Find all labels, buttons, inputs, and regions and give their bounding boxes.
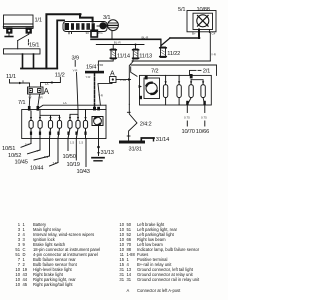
wire loop inner vertical bbox=[57, 20, 64, 68]
svg-text:10/43: 10/43 bbox=[77, 169, 90, 175]
svg-text:1.5: 1.5 bbox=[79, 141, 84, 145]
wire battery positive to 15/1 rail bbox=[18, 33, 29, 49]
battery terminal negative bbox=[7, 28, 12, 33]
svg-text:Ground connector rail in relay: Ground connector rail in relay unit bbox=[137, 277, 200, 282]
resistor top leads + arrows bbox=[30, 110, 87, 121]
svg-text:0.75: 0.75 bbox=[184, 116, 190, 120]
wire 10/44 stub bbox=[50, 139, 59, 167]
wire 10/66 drop bbox=[204, 105, 206, 126]
wire fuse 11/14 to 15/4 rail bbox=[98, 59, 113, 71]
connector A at left A-post bbox=[28, 87, 44, 94]
bulb failure sensor front 7/2 box bbox=[140, 75, 212, 105]
ground rail 31/31 bbox=[119, 141, 145, 144]
svg-text:LA: LA bbox=[45, 82, 49, 86]
svg-text:5.9: 5.9 bbox=[44, 155, 49, 159]
svg-text:15/4: 15/4 bbox=[86, 64, 96, 70]
svg-text:W: W bbox=[29, 96, 32, 100]
wire 10/52 stub bbox=[28, 139, 41, 154]
wire 10/43 stub bbox=[85, 139, 87, 167]
wire horizontal feed bottom bbox=[21, 68, 57, 70]
wire 7/1 upper bus bbox=[38, 105, 106, 109]
ground 31/13 bbox=[92, 158, 104, 161]
svg-text:Connector at left A-post: Connector at left A-post bbox=[137, 288, 181, 293]
svg-text:Right parking/tail light: Right parking/tail light bbox=[33, 282, 73, 287]
legend left column bbox=[15, 222, 100, 287]
battery 1/1 bbox=[4, 15, 34, 29]
indicator lamp unit 10/88 bbox=[187, 11, 216, 32]
svg-text:Y-R: Y-R bbox=[86, 75, 92, 79]
wire A pin1 down to 7/1 bbox=[28, 94, 31, 107]
connector box below ignition lock bbox=[91, 30, 97, 37]
wire from fuse 11/1 bbox=[10, 80, 30, 88]
main light relay 3/1 bbox=[108, 20, 119, 31]
wire feed step to ignition lock bbox=[80, 14, 93, 21]
svg-text:45: 45 bbox=[23, 282, 28, 287]
wire 10/51 stub bbox=[21, 139, 31, 148]
svg-text:15/1: 15/1 bbox=[29, 42, 39, 48]
wire 15/4 dashed drop to 7/1 bbox=[93, 73, 96, 110]
wire A corner drop to fuse 11/22 bbox=[159, 39, 162, 46]
svg-text:3/9: 3/9 bbox=[72, 55, 79, 61]
wire jog diagonal bbox=[161, 38, 170, 46]
resistor bottom leads 7/1 bbox=[30, 128, 87, 138]
svg-text:1.5R: 1.5R bbox=[97, 63, 104, 67]
rail 15/4 bbox=[85, 71, 104, 74]
svg-text:7/2: 7/2 bbox=[151, 68, 158, 74]
7/2 assembly bbox=[119, 59, 217, 144]
svg-text:1.5R: 1.5R bbox=[120, 78, 127, 82]
wire 10/70 drop bbox=[186, 105, 188, 126]
legend right column bbox=[119, 222, 200, 293]
svg-text:11/22: 11/22 bbox=[167, 51, 180, 57]
svg-text:31/14: 31/14 bbox=[156, 137, 169, 143]
svg-text:10/52: 10/52 bbox=[8, 153, 21, 159]
svg-text:A: A bbox=[127, 288, 130, 293]
svg-text:10/88: 10/88 bbox=[197, 7, 210, 13]
svg-text:11/14: 11/14 bbox=[117, 53, 130, 59]
resistor top leads 7/2 bbox=[165, 74, 205, 85]
pin 10/88 right bbox=[208, 30, 210, 33]
wire A pin2 down to 7/1 bbox=[38, 94, 40, 107]
svg-text:Y-R: Y-R bbox=[211, 53, 217, 57]
svg-text:11/2: 11/2 bbox=[55, 73, 65, 79]
svg-text:11/13: 11/13 bbox=[139, 53, 152, 59]
wire relay to wire A bbox=[111, 31, 113, 40]
battery terminal positive bbox=[26, 28, 31, 33]
svg-text:A: A bbox=[44, 87, 50, 96]
wire fuse 11/13 bottom run to right bbox=[132, 60, 210, 62]
fuse 11/13 bbox=[133, 44, 139, 60]
node pin 7/1 second bbox=[37, 106, 40, 111]
resistor bottom leads 7/2 bbox=[166, 98, 206, 105]
wire battery negative to post bbox=[5, 33, 13, 36]
svg-text:A: A bbox=[110, 71, 115, 78]
pin 10/88 left bbox=[198, 30, 200, 39]
svg-text:C4: C4 bbox=[212, 31, 216, 35]
svg-text:PG: PG bbox=[98, 31, 103, 35]
svg-text:31: 31 bbox=[127, 277, 132, 282]
svg-text:Y-R: Y-R bbox=[98, 94, 104, 98]
svg-text:2/1: 2/1 bbox=[203, 69, 210, 75]
ignition lock pins bbox=[69, 32, 72, 34]
svg-text:31/31: 31/31 bbox=[129, 147, 142, 153]
svg-text:0.75: 0.75 bbox=[201, 116, 207, 120]
svg-text:10/50: 10/50 bbox=[63, 154, 76, 160]
ground connector 31/14 step bbox=[141, 138, 154, 141]
svg-text:BL-R: BL-R bbox=[114, 41, 122, 45]
wire A (lock output to right) bbox=[91, 38, 160, 40]
wire from fuse 11/2 bbox=[41, 78, 61, 88]
svg-text:2/4:2: 2/4:2 bbox=[140, 122, 152, 128]
wire connector A right to 7/1 bbox=[98, 83, 112, 85]
wire coil 7/1 to ground bbox=[97, 126, 100, 156]
wire B (feed to fuses) bbox=[96, 44, 144, 46]
labels top bbox=[29, 7, 217, 79]
svg-text:10/70: 10/70 bbox=[182, 129, 195, 135]
wire indicator lamp feed (Y-R) vertical bbox=[209, 33, 211, 61]
fuse 11/14 bbox=[110, 45, 116, 60]
svg-text:BL-R: BL-R bbox=[142, 35, 150, 39]
svg-text:B+: B+ bbox=[192, 31, 196, 35]
svg-text:31: 31 bbox=[119, 277, 124, 282]
svg-text:1.5: 1.5 bbox=[70, 141, 75, 145]
bulb failure sensor rear 7/1 box bbox=[22, 110, 106, 139]
svg-text:7/1: 7/1 bbox=[18, 100, 25, 106]
wire 3/9 brake switch drop bbox=[75, 61, 78, 110]
svg-text:10/19: 10/19 bbox=[67, 162, 80, 168]
wire 10/88 to jog bbox=[170, 37, 200, 39]
resistors in 7/1 bbox=[29, 107, 103, 139]
positive rail 15/1 bbox=[4, 49, 41, 54]
lamp symbol in 10/88 bbox=[197, 15, 209, 27]
svg-text:10/45: 10/45 bbox=[15, 160, 28, 166]
svg-text:5/1: 5/1 bbox=[178, 7, 185, 13]
svg-text:10/44: 10/44 bbox=[30, 166, 43, 172]
wire 7/1 internal bus 1 bbox=[40, 110, 60, 115]
wire 2/4:2 zigzag to ground bbox=[127, 104, 137, 140]
wire 7/1 internal bus 2 bbox=[70, 110, 78, 115]
labels middle bbox=[2, 55, 210, 175]
svg-text:3/1: 3/1 bbox=[103, 15, 110, 21]
wire 10/50 stub bbox=[67, 139, 69, 151]
resistors in 7/2 bbox=[163, 85, 205, 98]
wire fuse 11/13 to 2/4 drop bbox=[129, 59, 133, 104]
svg-text:1/1: 1/1 bbox=[35, 18, 42, 24]
svg-text:31/13: 31/13 bbox=[101, 150, 114, 156]
svg-text:30: 30 bbox=[86, 31, 90, 35]
ignition lock 3/3 bbox=[63, 22, 107, 32]
bulb failure sensor front 7/2 outer band bbox=[131, 65, 217, 76]
svg-text:LA: LA bbox=[63, 101, 67, 105]
svg-text:10/51: 10/51 bbox=[2, 146, 15, 152]
wire 10/45 stub bbox=[34, 139, 50, 161]
node pin 7/1 left bbox=[28, 106, 31, 111]
wire 15/1 rail drops bbox=[23, 54, 34, 68]
svg-text:7.5: 7.5 bbox=[53, 161, 58, 165]
sensor coil 7/1 bbox=[92, 107, 103, 126]
connector A right square bbox=[110, 77, 116, 83]
svg-text:10/66: 10/66 bbox=[196, 129, 209, 135]
svg-text:10: 10 bbox=[15, 282, 20, 287]
wire 10/19 stub bbox=[75, 139, 77, 161]
node 2/1 hook bbox=[190, 70, 202, 75]
svg-text:Y-R: Y-R bbox=[73, 68, 79, 72]
wire loop outer vertical bbox=[46, 14, 80, 68]
fuse 11/22 bbox=[160, 47, 167, 58]
wire connector A right to 7/2 bbox=[116, 78, 142, 88]
svg-text:11/1: 11/1 bbox=[6, 74, 16, 80]
sensor coil 7/2 bbox=[139, 76, 160, 99]
